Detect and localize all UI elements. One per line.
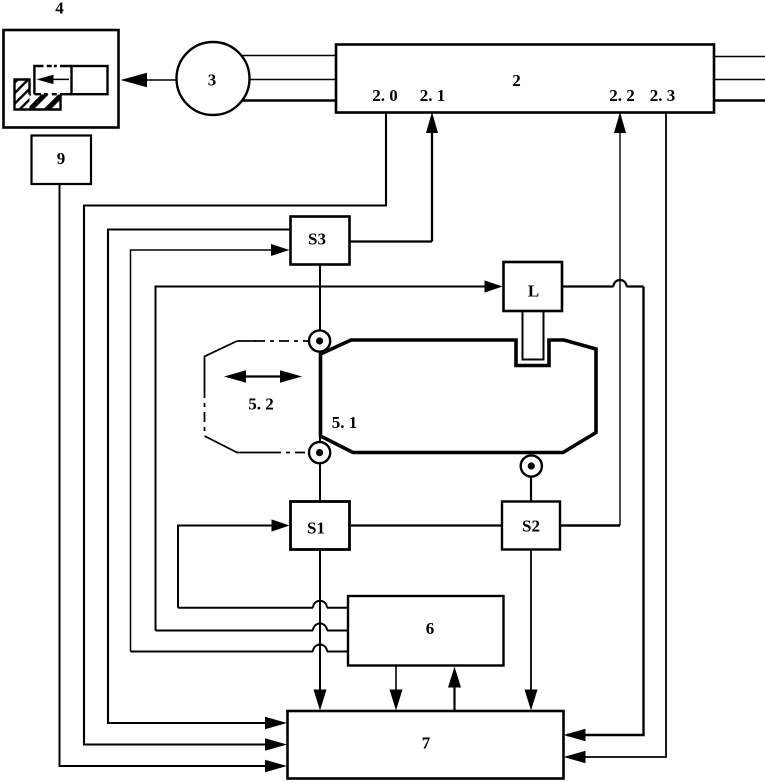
svg-text:6: 6: [426, 619, 435, 638]
svg-text:S1: S1: [307, 519, 325, 538]
svg-text:5. 2: 5. 2: [248, 395, 274, 414]
svg-text:S3: S3: [308, 230, 326, 249]
svg-text:9: 9: [57, 149, 66, 168]
svg-text:S2: S2: [522, 517, 540, 536]
svg-text:2. 0: 2. 0: [372, 86, 398, 105]
svg-text:2. 2: 2. 2: [609, 86, 635, 105]
svg-text:4: 4: [55, 0, 64, 18]
svg-text:2. 3: 2. 3: [650, 86, 676, 105]
svg-text:7: 7: [422, 734, 431, 753]
svg-text:3: 3: [208, 71, 217, 90]
svg-text:L: L: [528, 282, 539, 301]
svg-text:2. 1: 2. 1: [420, 86, 446, 105]
svg-text:5. 1: 5. 1: [332, 413, 358, 432]
svg-text:2: 2: [512, 71, 521, 90]
